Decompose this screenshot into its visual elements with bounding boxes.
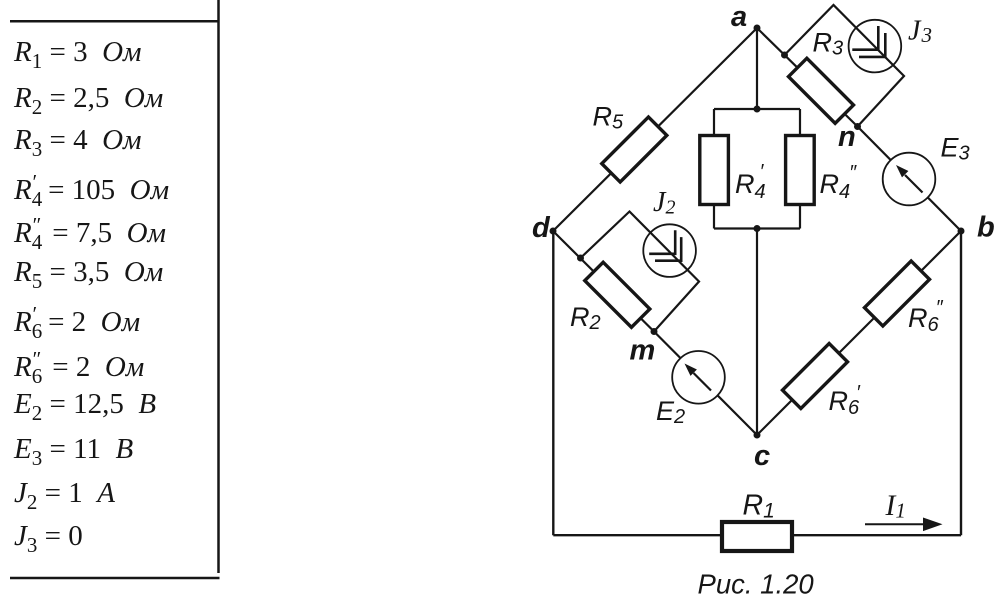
source J3 circle [849,20,902,73]
wire R4 top bar [714,108,800,110]
wire b down [960,231,962,535]
svg-text:R3: R3 [813,28,844,60]
junction R4 top [754,106,761,113]
svg-text:R5: R5 [593,102,625,134]
wire R4 right leg [799,109,801,229]
junction R4 bottom [754,225,761,232]
svg-text:a: a [731,1,747,33]
node n [854,123,861,130]
wire d down [552,231,554,535]
J3 arrow chevron 1 [852,26,878,50]
wire d-a [553,28,757,231]
svg-text:R1: R1 [743,490,775,523]
wire J3 parallel loop [785,5,905,127]
node a [754,25,761,32]
node b [958,228,965,235]
J3 arrow chevron 2 [859,33,885,57]
wire c-b (R6 branch) [757,231,961,435]
wire m-c (through E2) [654,332,757,436]
svg-text:R6′: R6′ [829,382,862,419]
resistor R2 [585,262,650,327]
svg-text:R6″: R6″ [908,297,944,336]
wire d-m (R2 branch) [553,231,654,332]
svg-text:m: m [630,335,656,367]
table top rule [10,20,220,23]
current arrow I1 [865,518,943,532]
resistor R4' [700,136,729,205]
resistor R4'' [786,136,815,205]
svg-text:J3: J3 [908,16,932,48]
source E2 circle [672,351,725,404]
resistor R1 [722,522,792,551]
svg-text:E3: E3 [941,133,970,165]
J2 arrow chevron 2 [655,237,681,261]
svg-text:R4″: R4″ [820,162,858,203]
wire R4 left leg [713,109,715,229]
resistor R6' [782,343,847,408]
E2 arrow [685,364,712,391]
node d [550,228,557,235]
svg-text:J2: J2 [653,187,675,219]
svg-text:I1: I1 [885,490,906,523]
junction on d-m wire [577,255,584,262]
J2 arrow chevron 1 [649,230,675,254]
svg-text:R4′: R4′ [735,161,766,203]
svg-text:Рис. 1.20: Рис. 1.20 [698,569,815,600]
svg-text:n: n [838,121,856,153]
svg-text:c: c [754,440,770,472]
resistor R5 [602,117,667,182]
table bottom rule [10,577,220,580]
wire R4 bottom bar [714,227,800,229]
wire R4 bottom to c [756,229,758,436]
svg-text:d: d [532,212,551,244]
wire a to R4 top [756,28,758,109]
table vertical rule [217,0,220,573]
svg-text:b: b [977,212,995,244]
resistor R6'' [864,261,929,326]
node m [651,328,658,335]
resistor R3 [788,58,853,123]
svg-text:R2: R2 [570,302,601,334]
svg-text:E2: E2 [656,396,685,428]
E3 arrow [896,165,923,193]
junction on a-n wire [781,52,788,59]
wire n-b (through E3) [858,127,962,232]
source E3 circle [883,153,936,206]
source J2 circle [643,224,696,277]
wire a-n (R3 branch) [757,28,858,127]
wire bottom (through R1) [553,534,961,536]
wire J2 parallel loop [581,212,700,332]
parameter table text [14,36,142,69]
node c [754,432,761,439]
